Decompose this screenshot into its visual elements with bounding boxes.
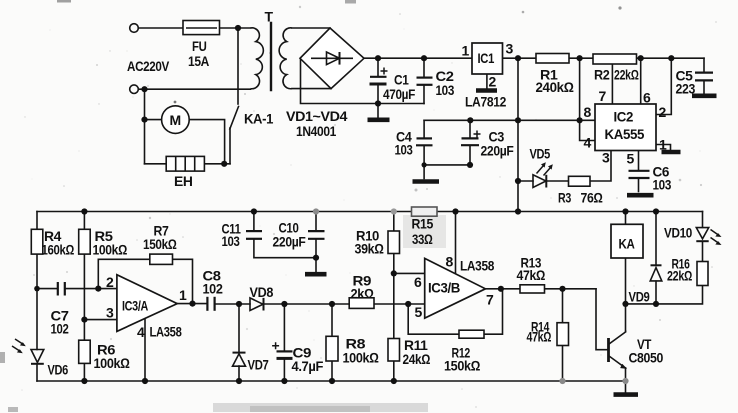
svg-text:VD8: VD8: [250, 284, 274, 300]
svg-text:22kΩ: 22kΩ: [667, 268, 692, 284]
svg-text:R2: R2: [594, 67, 610, 83]
svg-text:102: 102: [51, 321, 69, 337]
svg-text:100kΩ: 100kΩ: [94, 355, 131, 371]
svg-text:VD5: VD5: [530, 146, 551, 162]
svg-text:6: 6: [643, 90, 651, 106]
svg-text:103: 103: [436, 82, 455, 98]
svg-text:3: 3: [506, 41, 514, 57]
svg-text:223: 223: [676, 81, 696, 97]
svg-text:4: 4: [137, 324, 145, 340]
svg-text:24kΩ: 24kΩ: [403, 351, 431, 367]
svg-text:2: 2: [489, 74, 497, 90]
svg-text:EH: EH: [174, 173, 193, 189]
svg-text:1: 1: [462, 43, 470, 59]
svg-text:150kΩ: 150kΩ: [143, 236, 177, 252]
svg-text:LA358: LA358: [150, 324, 182, 340]
svg-text:KA: KA: [619, 236, 635, 252]
svg-text:M: M: [170, 112, 181, 128]
svg-text:IC2: IC2: [614, 109, 634, 125]
svg-text:103: 103: [653, 177, 672, 193]
svg-text:VD7: VD7: [248, 357, 269, 373]
svg-text:6: 6: [414, 274, 422, 290]
svg-text:2: 2: [106, 274, 114, 290]
svg-text:7: 7: [599, 88, 607, 104]
svg-text:100kΩ: 100kΩ: [93, 242, 128, 258]
svg-text:47kΩ: 47kΩ: [527, 329, 552, 345]
svg-text:2: 2: [659, 104, 667, 120]
svg-text:KA555: KA555: [605, 126, 645, 142]
svg-text:220µF: 220µF: [273, 234, 307, 250]
svg-text:470µF: 470µF: [383, 86, 416, 102]
svg-text:15A: 15A: [188, 53, 209, 69]
svg-text:102: 102: [203, 281, 224, 297]
svg-text:IC1: IC1: [478, 50, 495, 66]
svg-text:3: 3: [106, 305, 114, 321]
svg-text:R15: R15: [412, 216, 434, 232]
svg-text:8: 8: [584, 104, 592, 120]
svg-text:5: 5: [415, 304, 423, 320]
svg-text:1N4001: 1N4001: [296, 123, 337, 139]
svg-text:LA7812: LA7812: [465, 94, 507, 110]
svg-text:IC3/B: IC3/B: [428, 280, 460, 296]
svg-text:3: 3: [602, 150, 610, 166]
svg-text:76Ω: 76Ω: [581, 190, 604, 206]
svg-text:1: 1: [659, 137, 667, 153]
svg-text:FU: FU: [192, 38, 207, 54]
svg-text:C8050: C8050: [629, 350, 664, 366]
svg-text:4: 4: [584, 135, 592, 151]
svg-text:103: 103: [395, 142, 413, 158]
svg-text:VD10: VD10: [664, 225, 693, 241]
svg-text:39kΩ: 39kΩ: [355, 241, 385, 257]
svg-text:2kΩ: 2kΩ: [351, 286, 375, 302]
svg-text:R3: R3: [558, 190, 571, 206]
svg-text:240kΩ: 240kΩ: [536, 79, 575, 95]
svg-text:T: T: [265, 9, 274, 25]
svg-text:VD1~VD4: VD1~VD4: [286, 108, 348, 124]
svg-text:5: 5: [627, 151, 635, 167]
svg-text:4.7µF: 4.7µF: [292, 358, 324, 374]
svg-text:47kΩ: 47kΩ: [517, 267, 546, 283]
svg-text:33Ω: 33Ω: [412, 231, 433, 247]
svg-text:8: 8: [446, 254, 454, 270]
svg-text:100kΩ: 100kΩ: [343, 350, 380, 366]
svg-text:LA358: LA358: [460, 258, 495, 274]
svg-text:103: 103: [222, 233, 240, 249]
svg-text:7: 7: [486, 292, 494, 308]
svg-text:150kΩ: 150kΩ: [444, 358, 481, 374]
svg-text:22kΩ: 22kΩ: [614, 67, 639, 83]
svg-text:220µF: 220µF: [481, 143, 515, 159]
svg-text:VD6: VD6: [48, 362, 69, 378]
svg-text:VD9: VD9: [629, 289, 650, 305]
svg-text:KA-1: KA-1: [244, 111, 274, 127]
svg-text:AC220V: AC220V: [127, 58, 170, 74]
svg-text:IC3/A: IC3/A: [122, 298, 148, 314]
svg-text:160kΩ: 160kΩ: [42, 242, 75, 258]
svg-text:1: 1: [179, 287, 187, 303]
